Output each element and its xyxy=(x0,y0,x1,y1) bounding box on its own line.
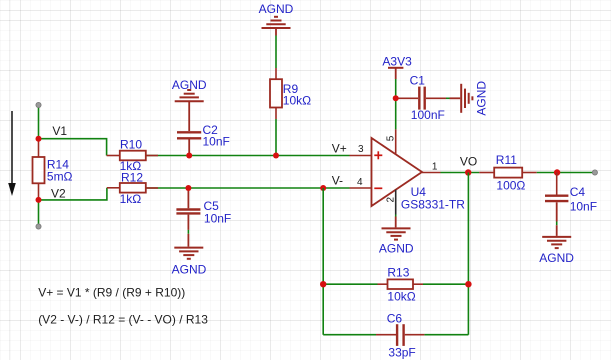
svg-text:10nF: 10nF xyxy=(204,212,231,226)
svg-text:AGND: AGND xyxy=(474,81,488,116)
node VO xyxy=(460,155,477,176)
wire: C5 to ground xyxy=(187,230,189,234)
svg-text:AGND: AGND xyxy=(539,251,574,265)
svg-text:V+: V+ xyxy=(332,142,347,156)
resistor R9 xyxy=(270,68,311,119)
wire: V2 junction to source bottom terminal xyxy=(38,200,40,227)
wire: R12 right lead xyxy=(146,187,158,189)
power flag A3V3 xyxy=(382,54,412,79)
capacitor C4 xyxy=(545,173,597,222)
pin 2 (V- supply) xyxy=(386,190,397,215)
svg-text:5mΩ: 5mΩ xyxy=(47,170,73,184)
wire: junction down to pin 5 xyxy=(395,98,397,129)
wire: A3V3 to junction xyxy=(395,79,397,98)
junction V- / feedback xyxy=(320,185,326,191)
svg-text:AGND: AGND xyxy=(379,242,414,256)
svg-text:C4: C4 xyxy=(570,185,586,199)
svg-text:10nF: 10nF xyxy=(203,134,230,148)
svg-text:R12: R12 xyxy=(121,170,143,184)
svg-text:R11: R11 xyxy=(496,153,517,167)
svg-text:1kΩ: 1kΩ xyxy=(120,192,142,206)
wire: feedback left vertical xyxy=(322,188,324,335)
svg-text:3: 3 xyxy=(358,144,364,155)
svg-text:33pF: 33pF xyxy=(388,346,415,360)
junction R11 / C4 xyxy=(554,169,560,175)
wire: R13 right xyxy=(423,283,468,285)
svg-text:AGND: AGND xyxy=(259,2,294,16)
wire: V2 junction right and up to R12 xyxy=(39,188,107,200)
source top terminal xyxy=(36,102,41,107)
wire: pin 2 to ground xyxy=(395,215,397,217)
svg-text:R10: R10 xyxy=(120,138,142,152)
junction V+ / R9 xyxy=(273,153,279,159)
junction feedback left xyxy=(320,281,326,287)
wire: R10 left lead xyxy=(107,155,120,157)
svg-text:VO: VO xyxy=(460,155,477,169)
source bottom terminal xyxy=(36,224,41,229)
wire: R13 left xyxy=(323,283,377,285)
wire: VO feedback right vertical xyxy=(467,173,469,335)
ground AGND above R9 xyxy=(259,2,294,35)
ground AGND above C2 xyxy=(172,78,207,131)
wire: R9 to V+ net xyxy=(275,119,277,156)
svg-text:10kΩ: 10kΩ xyxy=(283,94,311,108)
resistor R13 xyxy=(378,265,424,303)
wire: C4 to ground xyxy=(556,222,558,226)
pin 5 (V+ supply) xyxy=(386,129,397,154)
svg-text:10kΩ: 10kΩ xyxy=(387,290,415,304)
node V1 xyxy=(36,124,68,142)
wire: output to R11 xyxy=(441,172,480,174)
junction feedback right xyxy=(465,281,471,287)
svg-text:4: 4 xyxy=(357,177,363,188)
wire: AGND to R9 xyxy=(275,36,277,69)
capacitor C5 xyxy=(176,188,231,230)
svg-text:GS8331-TR: GS8331-TR xyxy=(401,197,465,211)
svg-text:V2: V2 xyxy=(51,186,66,200)
svg-text:(V2 - V-) / R12 = (V- - VO) /: (V2 - V-) / R12 = (V- - VO) / R13 xyxy=(38,313,208,327)
svg-text:V+ = V1 * (R9 / (R9 + R10)): V+ = V1 * (R9 / (R9 + R10)) xyxy=(38,286,185,300)
svg-text:V1: V1 xyxy=(52,124,67,138)
svg-text:2: 2 xyxy=(386,196,397,202)
ground AGND below C5 xyxy=(172,234,207,277)
pin 4 (V-) xyxy=(332,173,372,188)
svg-text:A3V3: A3V3 xyxy=(382,54,412,68)
wire: C1 to ground xyxy=(446,97,450,99)
wire: V1 junction right and down to R10 xyxy=(39,139,107,156)
wire: C6 right xyxy=(424,334,468,336)
node V2 xyxy=(36,186,67,203)
svg-text:10nF: 10nF xyxy=(570,199,597,213)
svg-text:100Ω: 100Ω xyxy=(496,178,525,192)
svg-text:C6: C6 xyxy=(387,312,403,326)
ground AGND right of C1 xyxy=(450,81,489,116)
capacitor C6 xyxy=(376,312,424,360)
ground AGND below pin 2 xyxy=(379,217,414,256)
svg-text:AGND: AGND xyxy=(172,78,207,92)
capacitor C2 xyxy=(177,123,230,156)
junction A3V3 / C1 / pin5 xyxy=(393,95,399,101)
svg-text:C1: C1 xyxy=(410,73,426,87)
wire: V+ net R10 to op-amp xyxy=(146,155,350,157)
junction V- / C5 xyxy=(185,185,191,191)
resistor R14 xyxy=(33,139,73,200)
svg-text:5: 5 xyxy=(386,135,397,141)
wire: R10 right lead xyxy=(146,155,158,157)
pin 1 (output) xyxy=(422,162,441,173)
output terminal xyxy=(592,170,597,175)
resistor R12 xyxy=(120,170,146,206)
resistor R10 xyxy=(120,138,146,174)
ground AGND below C4 xyxy=(539,225,574,265)
svg-text:100nF: 100nF xyxy=(411,108,445,122)
svg-text:1: 1 xyxy=(432,162,438,173)
resistor R11 xyxy=(479,153,536,193)
current direction arrow xyxy=(8,111,16,196)
svg-text:AGND: AGND xyxy=(172,263,207,277)
op-amp U4 xyxy=(372,138,466,211)
svg-text:V-: V- xyxy=(332,173,343,187)
wire: V- net R12 to op-amp xyxy=(146,187,350,189)
wire: source top terminal to V1 xyxy=(38,105,40,139)
wire: R12 left lead xyxy=(107,187,120,189)
pin 3 (V+) xyxy=(332,142,372,156)
junction V+ / C2 xyxy=(186,153,192,159)
wire: R11 to output terminal xyxy=(537,172,595,174)
capacitor C1 xyxy=(396,73,446,122)
svg-text:R13: R13 xyxy=(387,265,409,279)
wire: C6 left xyxy=(323,334,376,336)
